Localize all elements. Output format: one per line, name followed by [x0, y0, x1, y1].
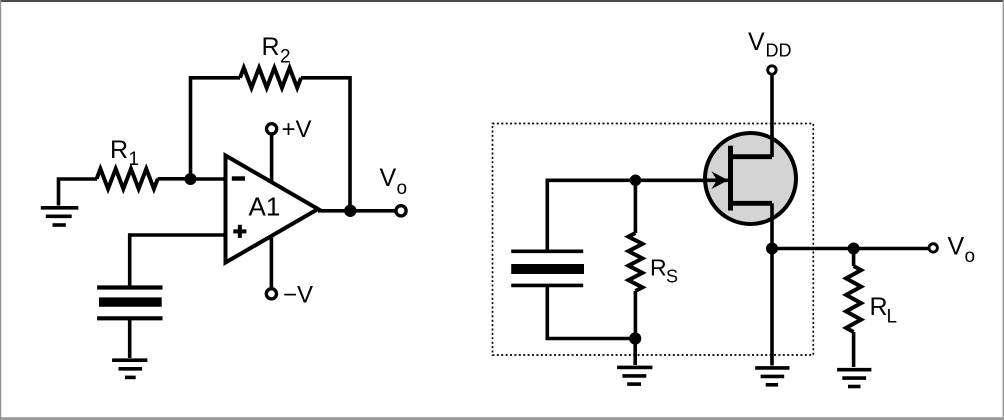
- svg-text:−V: −V: [283, 282, 313, 309]
- svg-text:1: 1: [129, 149, 140, 170]
- svg-text:V: V: [380, 164, 397, 192]
- svg-text:R: R: [650, 254, 667, 280]
- svg-text:L: L: [887, 307, 898, 328]
- svg-text:DD: DD: [766, 41, 792, 61]
- svg-text:o: o: [397, 178, 408, 199]
- svg-text:R: R: [262, 33, 280, 61]
- svg-text:V: V: [948, 233, 965, 261]
- svg-text:o: o: [965, 246, 976, 267]
- svg-text:S: S: [666, 267, 678, 287]
- svg-text:+V: +V: [282, 116, 312, 143]
- svg-text:A1: A1: [249, 192, 281, 222]
- svg-text:2: 2: [280, 47, 291, 68]
- svg-text:V: V: [748, 28, 765, 56]
- svg-text:R: R: [870, 293, 888, 321]
- svg-text:R: R: [110, 136, 128, 164]
